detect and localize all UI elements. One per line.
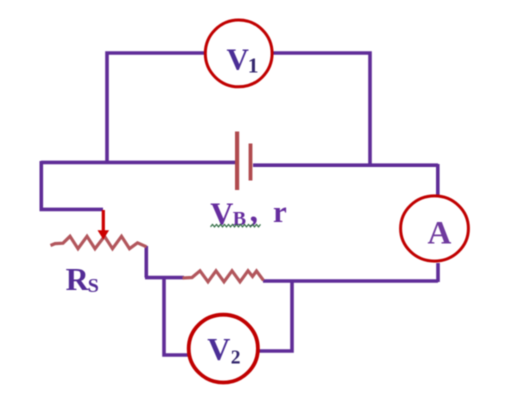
wire: V2 left branch: [164, 278, 188, 355]
wire: bottom horizontal return, right of resistor: [263, 279, 438, 283]
svg-text:V: V: [207, 331, 230, 367]
ammeter A circle: [401, 196, 469, 261]
label VB , r: [210, 193, 287, 232]
svg-text:r: r: [273, 194, 287, 229]
svg-text:2: 2: [231, 347, 241, 368]
rheostat RS zigzag element: [51, 236, 147, 248]
svg-text:1: 1: [248, 53, 259, 77]
voltmeter V2 circle: [189, 315, 258, 383]
battery VB left plate (long): [235, 132, 239, 191]
wire: V1 right branch (V1 to node over battery right): [271, 53, 370, 166]
squiggle spell-check underline under VB: [211, 224, 261, 227]
wire: ammeter top lead: [436, 164, 440, 196]
rheostat RS wiper arrow: [98, 210, 110, 240]
wire: main left horizontal to battery: [41, 161, 235, 165]
wire: V1 left branch (junction to V1): [107, 53, 206, 163]
wire: V2 right branch: [259, 280, 292, 351]
svg-text:V: V: [227, 41, 250, 76]
label RS: [66, 261, 99, 297]
svg-text:S: S: [88, 275, 99, 297]
svg-text:R: R: [66, 261, 90, 297]
wire: rheostat output link down: [145, 246, 149, 278]
voltmeter V1 circle: [205, 20, 272, 87]
wire: left drop to rheostat wiper: [41, 161, 103, 209]
wire: bottom horizontal return, left of resistor: [145, 276, 184, 280]
resistor (bottom) zigzag element: [183, 271, 264, 282]
wire: battery right horizontal to ammeter branch: [253, 163, 438, 167]
wire: ammeter bottom lead: [436, 263, 440, 282]
svg-text:A: A: [428, 216, 452, 252]
battery VB right plate (short): [249, 144, 253, 181]
